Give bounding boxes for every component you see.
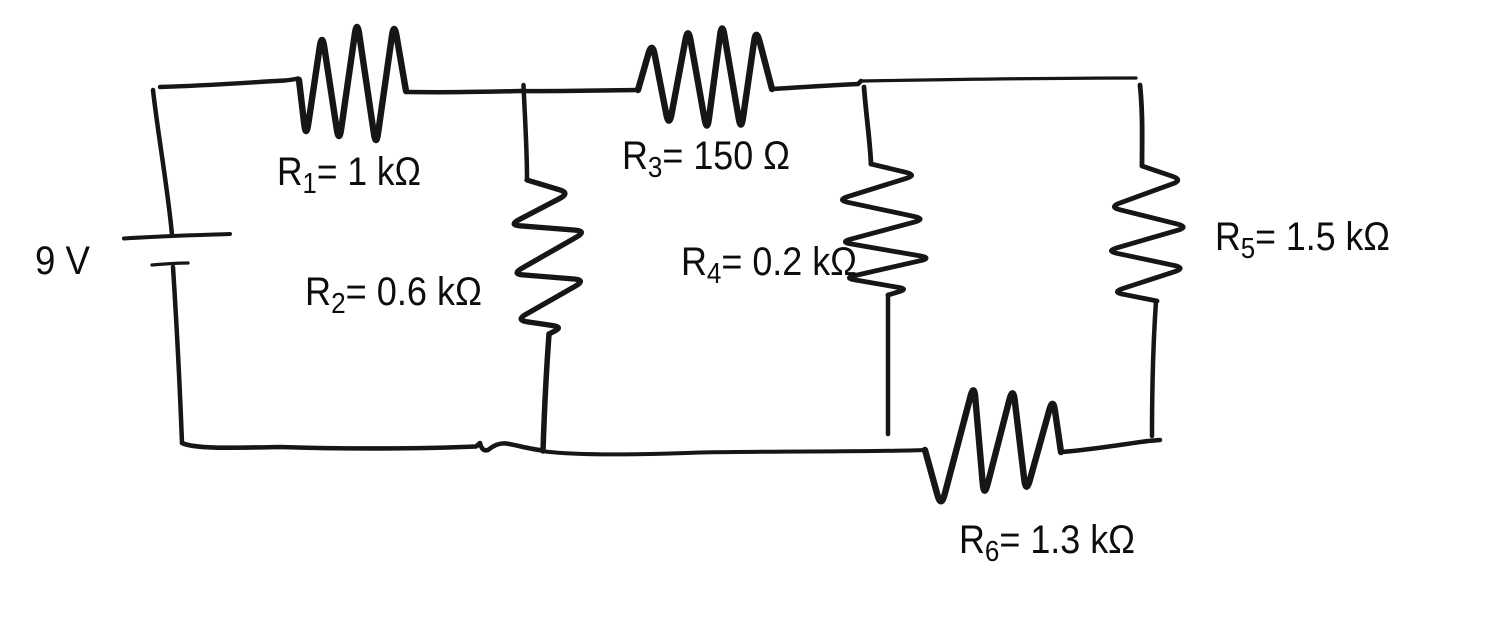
wire R4 bottom stub (886, 295, 891, 434)
resistor R3 (638, 28, 772, 125)
wire R3 to node C (772, 81, 861, 89)
svg-text:R1= 1 kΩ: R1= 1 kΩ (277, 150, 421, 200)
svg-text:R2= 0.6 kΩ: R2= 0.6 kΩ (305, 270, 482, 320)
resistor R1 (299, 27, 406, 140)
svg-text:R4= 0.2 kΩ: R4= 0.2 kΩ (681, 240, 857, 290)
svg-text:9 V: 9 V (35, 239, 90, 283)
wire R5 corner vertical (1140, 85, 1142, 166)
wire R2 bottom stub (543, 334, 549, 451)
wire left vertical upper (153, 90, 172, 235)
wire bottom right (1061, 440, 1160, 452)
wire bottom left (182, 443, 543, 451)
battery V1 top plate (124, 234, 230, 239)
wire R4 top stub (864, 87, 871, 164)
svg-text:R6= 1.3 kΩ: R6= 1.3 kΩ (959, 518, 1135, 568)
resistor R2 (514, 180, 581, 334)
svg-text:R3= 150 Ω: R3= 150 Ω (622, 134, 790, 184)
wire bottom middle (545, 450, 925, 454)
wire left vertical lower (173, 267, 182, 443)
wire node B to R3 (521, 90, 638, 91)
wire R2 top stub (524, 85, 528, 178)
wire node C to R5 corner (861, 78, 1136, 81)
svg-text:R5= 1.5 kΩ: R5= 1.5 kΩ (1215, 215, 1390, 265)
wire R5 bottom stub (1152, 301, 1156, 436)
resistor R4 (842, 164, 926, 295)
wire top-left horizontal (160, 79, 298, 88)
battery V1 bottom plate (152, 263, 188, 265)
resistor R5 (1111, 166, 1183, 301)
resistor R6 (925, 390, 1061, 501)
wire R1 to node B (406, 91, 521, 92)
